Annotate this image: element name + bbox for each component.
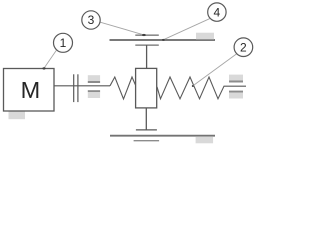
svg-text:1: 1 [60,36,67,50]
svg-text:3: 3 [88,13,95,27]
svg-text:2: 2 [240,40,247,54]
svg-text:4: 4 [214,5,221,19]
svg-text:M: M [21,77,41,103]
